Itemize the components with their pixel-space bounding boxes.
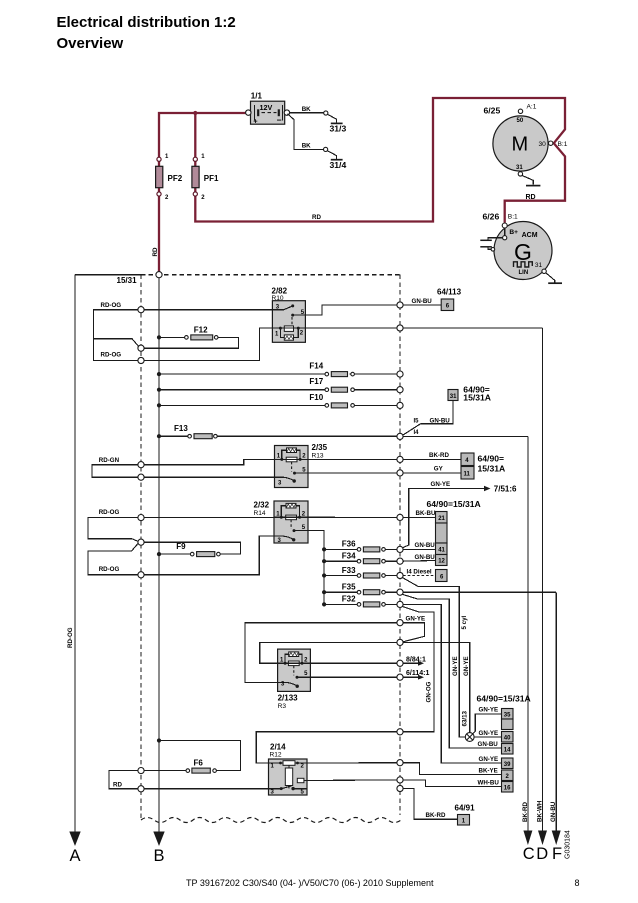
wire 2/35 pin2 to 64/90:4 (BK-RD) bbox=[308, 458, 461, 460]
svg-text:64/91: 64/91 bbox=[455, 804, 476, 813]
relay 2/32 R14 bbox=[254, 501, 309, 544]
svg-text:B:1: B:1 bbox=[558, 141, 568, 148]
fuse F9 bbox=[157, 552, 161, 556]
svg-text:RD-OG: RD-OG bbox=[99, 566, 120, 573]
relay 2/82 R10 bbox=[272, 287, 306, 343]
svg-text:D: D bbox=[536, 845, 548, 863]
wire RD-OG row3 to 2/82 coil pin1 bbox=[144, 328, 272, 360]
svg-text:F: F bbox=[552, 845, 562, 863]
svg-text:GN-BU: GN-BU bbox=[478, 741, 499, 748]
svg-text:2/133: 2/133 bbox=[278, 694, 299, 703]
svg-text:8/84:1: 8/84:1 bbox=[406, 656, 426, 663]
switch / ground 31/3 bbox=[324, 111, 328, 115]
wire F33 branch to splice 63/13 bbox=[403, 578, 466, 737]
node pin F14 bbox=[397, 371, 403, 377]
ground at motor M bbox=[522, 175, 533, 184]
wire 2/14 pin2 to 64/90:2 (BK-YE) bbox=[307, 762, 397, 764]
svg-text:50: 50 bbox=[517, 118, 524, 124]
svg-text:2/14: 2/14 bbox=[270, 743, 286, 752]
fuse F6 bbox=[213, 769, 217, 773]
svg-text:35: 35 bbox=[504, 712, 511, 718]
svg-text:F6: F6 bbox=[194, 759, 204, 768]
svg-text:GN-BU: GN-BU bbox=[412, 298, 433, 305]
svg-text:GN-YE: GN-YE bbox=[406, 616, 426, 623]
connector 64/90 pin 16 bbox=[502, 782, 514, 793]
wire F12 to RD-OG row2 bbox=[144, 337, 238, 348]
svg-text:7/51:6: 7/51:6 bbox=[494, 485, 517, 494]
relay 2/14 R12 bbox=[269, 743, 308, 796]
svg-text:GN-YE: GN-YE bbox=[479, 707, 499, 714]
svg-text:R3: R3 bbox=[278, 703, 287, 710]
svg-text:R14: R14 bbox=[254, 510, 266, 517]
svg-text:31: 31 bbox=[450, 394, 457, 400]
svg-text:GN-YE: GN-YE bbox=[479, 730, 499, 737]
svg-text:31/4: 31/4 bbox=[330, 160, 347, 170]
connector 64/90 pin 39 bbox=[502, 758, 514, 769]
wire 2/32 pin5 to fuse rail bbox=[308, 531, 324, 605]
svg-text:Electrical distribution 1:2: Electrical distribution 1:2 bbox=[57, 14, 236, 31]
connector 64/90 pin 12 bbox=[436, 555, 448, 566]
motor M 6/25 (starter) bbox=[484, 104, 568, 177]
module 15/31 boundary: dashed left bbox=[140, 275, 142, 819]
svg-text:63/13: 63/13 bbox=[462, 710, 469, 726]
node pin BK-BU bbox=[397, 514, 403, 520]
module 15/31 boundary: dashed top bbox=[141, 274, 400, 276]
node RD-GN row2 bbox=[138, 474, 144, 480]
svg-text:12V: 12V bbox=[260, 103, 273, 112]
svg-text:6/25: 6/25 bbox=[484, 106, 501, 116]
wire external loop F6/RD bbox=[109, 771, 138, 789]
fuse F35 bbox=[322, 590, 326, 594]
svg-text:40: 40 bbox=[504, 735, 511, 741]
svg-text:GN-OG: GN-OG bbox=[426, 681, 433, 702]
connector 64/90 pin 6 bbox=[436, 570, 448, 582]
svg-text:A:1: A:1 bbox=[527, 104, 537, 111]
node pin BK-RD bbox=[397, 456, 403, 462]
svg-text:F17: F17 bbox=[309, 377, 323, 386]
svg-text:B:1: B:1 bbox=[508, 214, 518, 221]
node pin GN-OG return bbox=[397, 729, 403, 735]
svg-text:14: 14 bbox=[504, 747, 511, 753]
generator G 6/26 (alternator ACM) bbox=[483, 212, 553, 280]
relay 2/133 R3 bbox=[278, 649, 311, 710]
svg-text:F32: F32 bbox=[342, 595, 356, 604]
wire 2/35 pin5 to 64/90:11 (GY) bbox=[308, 472, 461, 474]
wire BK to ground 31/3 bbox=[290, 112, 324, 114]
svg-text:GN-BU: GN-BU bbox=[415, 554, 436, 561]
svg-text:GN-YE: GN-YE bbox=[431, 481, 451, 488]
svg-text:GN-BU: GN-BU bbox=[430, 417, 451, 424]
svg-text:39: 39 bbox=[504, 762, 511, 768]
svg-text:I4 Diesel: I4 Diesel bbox=[407, 568, 432, 575]
svg-text:15/31A: 15/31A bbox=[463, 393, 491, 403]
wire BK to ground 31/4 bbox=[288, 114, 324, 150]
node RD-OG row1 bbox=[138, 307, 144, 313]
svg-text:BK: BK bbox=[302, 142, 311, 149]
connector 64/90 blank cell 2 bbox=[502, 719, 514, 730]
svg-text:F35: F35 bbox=[342, 583, 356, 592]
node pin GN-YE chain 2 bbox=[397, 639, 403, 645]
svg-text:PF2: PF2 bbox=[168, 174, 183, 183]
svg-text:R12: R12 bbox=[270, 752, 282, 759]
svg-text:31: 31 bbox=[535, 262, 543, 269]
node pin F35 bbox=[397, 589, 403, 595]
svg-text:+: + bbox=[253, 117, 258, 126]
svg-text:B: B bbox=[154, 847, 165, 865]
svg-text:F10: F10 bbox=[309, 393, 323, 402]
wire GN-YE chain to splice 63/13 bbox=[403, 642, 470, 732]
svg-text:RD: RD bbox=[526, 194, 536, 201]
svg-text:I4: I4 bbox=[414, 430, 420, 436]
svg-text:21: 21 bbox=[438, 516, 445, 522]
svg-text:GN-YE: GN-YE bbox=[452, 656, 459, 676]
wire RD battery feed (red main supply) bbox=[159, 113, 245, 272]
svg-text:C: C bbox=[523, 845, 535, 863]
wire external loop RD-OG lower bbox=[88, 543, 138, 575]
wire 2/133 pin5 to 6/114:1 bbox=[310, 676, 397, 678]
svg-text:30: 30 bbox=[539, 141, 547, 148]
fuse F12 bbox=[157, 335, 161, 339]
svg-text:BK-RD: BK-RD bbox=[429, 452, 449, 459]
svg-text:64/90=15/31A: 64/90=15/31A bbox=[477, 694, 531, 704]
node 15/31 supply entry bbox=[156, 272, 162, 278]
svg-text:2/35: 2/35 bbox=[312, 443, 328, 452]
node pin GY bbox=[397, 470, 403, 476]
svg-text:6/114:1: 6/114:1 bbox=[406, 670, 429, 677]
connector 64/90 pin 4 bbox=[461, 453, 474, 466]
svg-text:TP 39167202 C30/S40 (04- )/V50: TP 39167202 C30/S40 (04- )/V50/C70 (06-)… bbox=[186, 878, 434, 888]
svg-text:M: M bbox=[512, 134, 529, 156]
fuse F17 bbox=[157, 388, 161, 392]
svg-text:64/113: 64/113 bbox=[437, 288, 462, 297]
node pin F17 bbox=[397, 387, 403, 393]
fuse F14 bbox=[157, 372, 161, 376]
connector 64/90 blank cell bbox=[436, 523, 448, 543]
svg-text:−: − bbox=[277, 115, 282, 125]
connector 64/90 pin 31 bbox=[448, 390, 458, 401]
wire GN-YE to 7/51:6 bbox=[403, 489, 485, 548]
svg-text:BK: BK bbox=[302, 106, 311, 113]
svg-text:F34: F34 bbox=[342, 552, 356, 561]
node pin GN-BU 2/82 pin5 bbox=[397, 302, 403, 308]
svg-text:F12: F12 bbox=[194, 326, 208, 335]
wire RD-OG row6 to 2/32 pin3 bbox=[144, 536, 274, 575]
svg-text:16: 16 bbox=[504, 785, 511, 791]
fuse F33 bbox=[322, 573, 326, 577]
battery 1/1 bbox=[246, 92, 290, 126]
svg-text:11: 11 bbox=[464, 471, 471, 477]
arrow D with BK-WH bbox=[542, 328, 544, 831]
wire 2/82 pin5 to 64/113 bbox=[293, 305, 397, 315]
svg-text:LIN: LIN bbox=[519, 270, 529, 276]
svg-text:WH-BU: WH-BU bbox=[478, 779, 500, 786]
node pin F10 bbox=[397, 402, 403, 408]
svg-text:RD-OG: RD-OG bbox=[67, 627, 74, 648]
svg-text:A: A bbox=[70, 847, 81, 865]
switch / ground 31/4 bbox=[324, 147, 328, 151]
svg-text:RD-OG: RD-OG bbox=[99, 509, 120, 516]
wire RD from PF1 to motor M and generator G (red) bbox=[195, 98, 565, 223]
node RD-GN row1 bbox=[138, 462, 144, 468]
wire F32 branch GN-OG to 2/14 pin1 node bbox=[403, 607, 435, 732]
svg-text:RD-OG: RD-OG bbox=[101, 352, 122, 359]
fuse F32 bbox=[322, 602, 326, 606]
arrow F with GN-BU bbox=[555, 592, 557, 831]
svg-text:F33: F33 bbox=[342, 566, 356, 575]
node RD-OG F9 return bbox=[138, 539, 144, 545]
svg-text:2/32: 2/32 bbox=[254, 501, 270, 510]
svg-text:BK-WH: BK-WH bbox=[536, 800, 543, 822]
arrow C with BK-RD bbox=[527, 436, 529, 831]
fuse F34 bbox=[322, 559, 326, 563]
wire I5 GN-BU from 64/90:31 to node I4 bbox=[403, 401, 453, 436]
wire 2/133 pin1 to GN-YE chain2 bbox=[260, 642, 397, 663]
svg-text:G030184: G030184 bbox=[565, 830, 572, 859]
wire external loop RD-GN bbox=[92, 465, 138, 478]
svg-text:BK-YE: BK-YE bbox=[479, 767, 498, 774]
wire F35 to arrow F (GN-BU) bbox=[403, 591, 556, 593]
suppression capacitor at G bbox=[488, 238, 503, 240]
svg-text:Overview: Overview bbox=[57, 35, 124, 52]
wire splice to 64/90:35 (GN-YE) bbox=[473, 714, 502, 734]
fuse F36 bbox=[322, 547, 326, 551]
fuse PF2 bbox=[156, 166, 163, 187]
connector 64/90 pin 11 bbox=[461, 467, 474, 480]
wire 2/14 aux to 64/90:16 (WH-BU) bbox=[307, 779, 397, 782]
wire RD to 2/14 pin3 bbox=[144, 788, 268, 790]
svg-text:8: 8 bbox=[575, 878, 580, 888]
node pin F34 GN-BU bbox=[397, 558, 403, 564]
wire F35 branch to 64/90:14 (GN-BU) bbox=[403, 594, 502, 748]
wire GN-YE loop bbox=[403, 623, 425, 642]
node pin RD bbox=[138, 786, 144, 792]
wire RD-GN row2 to 2/35 pin3 bbox=[144, 476, 274, 478]
relay 2/35 R13 bbox=[275, 443, 328, 488]
svg-text:I5: I5 bbox=[414, 418, 420, 424]
module 15/31 boundary: dashed right bbox=[399, 275, 401, 815]
svg-text:5 cyl: 5 cyl bbox=[461, 615, 468, 629]
svg-text:15/31: 15/31 bbox=[117, 276, 138, 285]
svg-text:RD-OG: RD-OG bbox=[101, 302, 122, 309]
wire F32 to 64/90:39 (GN-YE) bbox=[403, 604, 501, 763]
svg-text:GN-YE: GN-YE bbox=[479, 756, 499, 763]
node pin 2/82 pin2 bbox=[397, 325, 403, 331]
svg-text:15/31A: 15/31A bbox=[478, 463, 506, 473]
module 15/31 boundary: wavy bottom (cut) bbox=[141, 818, 401, 823]
svg-text:RD: RD bbox=[113, 781, 122, 788]
wire rail B to 2/14 loop + fuse F6 bbox=[157, 738, 161, 742]
svg-text:F13: F13 bbox=[174, 424, 188, 433]
svg-text:BK-BU: BK-BU bbox=[416, 510, 436, 517]
svg-text:31: 31 bbox=[516, 165, 523, 171]
ground at generator G bbox=[542, 269, 546, 273]
wire 2/14 pin5 to 64/91 (BK-RD) bbox=[397, 785, 403, 791]
wire I4 to arrow C bbox=[403, 435, 528, 437]
connector 64/90 pin 14 bbox=[502, 744, 514, 755]
wire RD-OG row4 to 2/32 pin1 bbox=[144, 516, 274, 518]
svg-text:31/3: 31/3 bbox=[330, 124, 347, 134]
connector 64/90 pin 41 bbox=[436, 543, 448, 555]
wire external loop RD-OG left bbox=[94, 310, 139, 361]
wire RD-GN row1 to 2/35 pin1 bbox=[144, 459, 274, 464]
node pin GN-YE chain 1 bbox=[397, 620, 403, 626]
svg-text:BK-RD: BK-RD bbox=[426, 812, 446, 819]
node pin 6/114:1 bbox=[397, 674, 403, 680]
svg-text:RD-GN: RD-GN bbox=[99, 457, 120, 464]
node pin F6 bbox=[138, 768, 144, 774]
node RD-OG row3 (coil feed) bbox=[138, 357, 144, 363]
rail B (fuse supply rail) bbox=[158, 278, 160, 832]
svg-text:F14: F14 bbox=[309, 362, 323, 371]
svg-text:ACM: ACM bbox=[522, 232, 538, 239]
svg-text:B+: B+ bbox=[509, 229, 518, 236]
rail A (RD-OG distribution) bbox=[74, 275, 76, 832]
svg-text:6/26: 6/26 bbox=[483, 212, 500, 222]
node pin F32 bbox=[397, 601, 403, 607]
svg-text:64/90=: 64/90= bbox=[478, 454, 505, 464]
svg-text:12: 12 bbox=[438, 559, 445, 565]
svg-text:RD: RD bbox=[152, 247, 159, 256]
connector 64/90 pin 21 bbox=[436, 512, 448, 524]
fuse F13 bbox=[157, 434, 161, 438]
splice 63/13 bbox=[465, 733, 474, 742]
wire F9 return to module node bbox=[144, 542, 240, 554]
node pin I4 / F13 bbox=[397, 433, 403, 439]
connector 64/90 pin 35 bbox=[502, 709, 514, 720]
svg-text:1/1: 1/1 bbox=[251, 92, 263, 101]
wire 2/32 pin2 to 64/90:21 (BK-BU) bbox=[308, 516, 436, 518]
connector 64/90 pin 2 bbox=[502, 770, 514, 781]
fuse PF1 bbox=[192, 166, 199, 187]
svg-text:RD: RD bbox=[312, 214, 321, 221]
svg-text:GN-BU: GN-BU bbox=[415, 542, 436, 549]
LIN square wave symbol in G bbox=[514, 262, 533, 267]
svg-text:GN-BU: GN-BU bbox=[550, 801, 557, 822]
wire RD-OG row1 to 2/82 pin3 bbox=[144, 309, 272, 311]
wire 2/82 pin2 to arrow D (BK-WH) bbox=[305, 327, 542, 329]
node RD-OG row6 bbox=[138, 572, 144, 578]
svg-text:64/90=15/31A: 64/90=15/31A bbox=[427, 499, 481, 509]
wire 2/133 pin2 to 8/84:1 bbox=[310, 662, 397, 664]
svg-text:F9: F9 bbox=[176, 542, 186, 551]
svg-text:41: 41 bbox=[438, 547, 445, 553]
connector 64/90 pin 40 bbox=[502, 732, 514, 743]
svg-text:R13: R13 bbox=[312, 453, 324, 460]
fuse F10 bbox=[157, 403, 161, 407]
svg-text:PF1: PF1 bbox=[204, 174, 219, 183]
wire GN-YE chain1 to 2/133 pin3 bbox=[245, 623, 397, 683]
node RD-OG row2 (F12 return) bbox=[138, 345, 144, 351]
node pin F36 GN-BU bbox=[397, 546, 403, 552]
node pin F33 I4 Diesel bbox=[397, 572, 403, 578]
svg-text:BK-RD: BK-RD bbox=[522, 802, 529, 822]
node pin 8/84:1 bbox=[397, 660, 403, 666]
svg-text:F36: F36 bbox=[342, 540, 356, 549]
junction at PF1 top bbox=[193, 111, 197, 115]
svg-text:GY: GY bbox=[434, 466, 444, 473]
node RD-OG row4 bbox=[138, 515, 144, 521]
wire external loop RD-OG (to F9 return) bbox=[88, 518, 138, 542]
module 15/31 boundary: solid top-left bbox=[75, 274, 141, 276]
wire splice to 64/90:40 (GN-YE) bbox=[474, 736, 501, 738]
wire GN-OG node to 2/14 pin1 bbox=[256, 732, 397, 763]
